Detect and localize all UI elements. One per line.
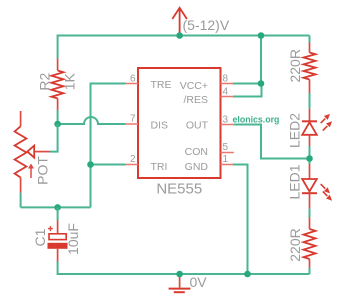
- potentiometer POT wiper triangle: [27, 146, 34, 158]
- potentiometer POT adjust arrow: [30, 168, 32, 179]
- wire: pin 4 riser: [233, 84, 262, 97]
- wire: R3 to LED2: [309, 93, 311, 109]
- wire: wiper to DIS junction: [50, 124, 58, 152]
- pin 2 stub: [126, 164, 139, 166]
- capacitor C1 negative plate: [48, 243, 68, 249]
- potentiometer POT wiper lead: [34, 151, 50, 153]
- wire: R2 bottom to DIS junction: [57, 110, 59, 124]
- svg-text:NE555: NE555: [156, 181, 202, 198]
- wire: TRE/TRI vertical x=90.5: [90, 84, 92, 208]
- junction bottom rail at ground: [176, 271, 183, 278]
- resistor R3 220R leads: [309, 43, 311, 94]
- resistor R2: [51, 71, 63, 99]
- LED1 triangle: [302, 179, 317, 192]
- resistor R2 leads: [57, 58, 59, 110]
- svg-text:220R: 220R: [287, 49, 303, 82]
- svg-text:LED1: LED1: [287, 164, 303, 199]
- wire: pot bottom to rail: [20, 193, 22, 208]
- LED2 bottom lead: [309, 135, 311, 146]
- potentiometer POT bottom lead: [20, 178, 22, 193]
- junction TRI net: [87, 161, 94, 168]
- capacitor C1 bottom lead: [57, 249, 59, 262]
- wire: pin 2 horizontal: [91, 164, 126, 166]
- resistor R3 220R (top right): [304, 53, 316, 80]
- wire: pin 6 horizontal: [90, 83, 126, 85]
- wire: C1 to bottom rail: [58, 262, 310, 275]
- LED1 bottom lead: [309, 193, 311, 209]
- svg-text:/RES: /RES: [183, 94, 208, 106]
- svg-text:OUT: OUT: [186, 120, 209, 132]
- LED1 cathode bar: [302, 192, 317, 194]
- svg-text:4: 4: [223, 87, 229, 98]
- svg-text:C1: C1: [32, 228, 48, 246]
- svg-text:1: 1: [223, 154, 229, 165]
- svg-text:POT: POT: [35, 156, 51, 185]
- svg-text:R2: R2: [37, 73, 53, 91]
- junction DIS/R2/wiper: [54, 121, 61, 128]
- LED2 triangle: [302, 122, 317, 135]
- pin 3 stub: [221, 124, 235, 126]
- svg-text:6: 6: [130, 74, 136, 85]
- svg-text:TRE: TRE: [151, 79, 172, 91]
- wire: R4 to bottom rail: [309, 268, 311, 275]
- wire: pin 8 to VCC drop: [233, 83, 261, 85]
- wire: top rail corner into R3: [309, 36, 311, 43]
- pin 6 stub: [126, 83, 139, 85]
- capacitor C1 plus sign: [48, 226, 53, 231]
- wire: junction down to C1: [57, 207, 59, 220]
- junction at pin8/4 tie: [258, 80, 265, 87]
- power flag (5-12)V: [179, 8, 181, 36]
- wire: pin 1 GND route: [233, 165, 248, 275]
- resistor R4 220R leads: [309, 218, 311, 268]
- svg-text:TRI: TRI: [151, 161, 168, 173]
- junction top rail at x=261: [258, 32, 265, 39]
- wire: DIS net from junction to pin 7 with hop: [58, 117, 126, 124]
- svg-text:8: 8: [223, 74, 229, 85]
- svg-text:LED2: LED2: [287, 113, 303, 148]
- svg-text:(5-12)V: (5-12)V: [183, 17, 230, 33]
- pin 1 stub: [221, 164, 234, 166]
- junction cap/pot/tri: [54, 204, 61, 211]
- svg-text:VCC+: VCC+: [180, 80, 208, 92]
- svg-text:10uF: 10uF: [65, 223, 81, 255]
- svg-text:elonics.org: elonics.org: [233, 114, 280, 124]
- pin 4 stub: [221, 96, 234, 98]
- wire: LED1 to R4: [309, 209, 311, 218]
- svg-text:DIS: DIS: [151, 120, 169, 132]
- ground symbol: [179, 274, 181, 288]
- LED1 top lead: [309, 164, 311, 179]
- svg-text:7: 7: [130, 114, 136, 125]
- svg-text:CON: CON: [185, 146, 208, 158]
- resistor R4 220R (bottom right): [304, 229, 316, 259]
- pin 7 stub: [126, 123, 139, 125]
- capacitor C1 top lead: [57, 221, 59, 234]
- LED1 emission arrows: [319, 182, 332, 195]
- wire: OUT net pin3 to LED junction: [234, 125, 310, 159]
- wire: top VCC rail y=35.5: [58, 35, 310, 37]
- capacitor C1 positive plate: [49, 234, 66, 240]
- potentiometer POT body: [15, 126, 27, 177]
- svg-text:1K: 1K: [61, 72, 77, 90]
- wire: VCC drop to pins 8/4 x=261: [260, 36, 262, 84]
- svg-text:3: 3: [223, 114, 229, 125]
- LED2 top lead: [309, 109, 311, 122]
- potentiometer POT top lead: [20, 111, 22, 126]
- pin 5 stub: [221, 152, 234, 154]
- wire: R2 top drop: [57, 35, 59, 59]
- svg-text:GND: GND: [185, 161, 209, 173]
- svg-text:2: 2: [130, 154, 136, 165]
- svg-text:0V: 0V: [190, 274, 208, 290]
- LED2 emission arrows: [319, 112, 332, 125]
- junction bottom rail at x=247.5: [244, 271, 251, 278]
- junction OUT/LED: [306, 155, 313, 162]
- LED2 cathode bar: [302, 120, 317, 122]
- svg-text:5: 5: [223, 142, 229, 153]
- svg-text:220R: 220R: [287, 228, 303, 261]
- IC U1 NE555 body: [138, 68, 221, 178]
- wire: LED2 to OUT junction: [309, 146, 311, 164]
- pin 8 stub: [221, 83, 234, 85]
- wire: bottom of TRE/TRI vertical to cap junction: [21, 206, 91, 208]
- junction top rail at power flag: [176, 32, 183, 39]
